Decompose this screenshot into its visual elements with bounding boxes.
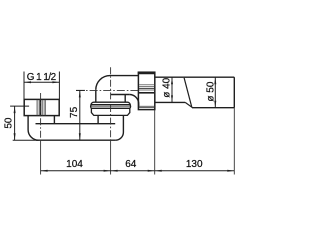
collar: bead inner line 1 [91,104,130,106]
svg-text:ø 50: ø 50 [205,81,216,101]
outlet pipe: right end face [233,77,235,108]
dimension: 50 [10,106,29,140]
elbow: hub bottom corner arc into nut [129,95,138,109]
outlet pipe: o40 bottom line [155,101,185,103]
centerline: outlet axis [76,89,138,91]
extension: left nut axis to dim line [40,140,42,174]
outlet pipe: cone diagonal [184,78,192,107]
wire: tailpipe right edge + inner bend arc [53,116,55,124]
nut G1 facet shading lines [37,100,45,115]
collar: upper bead [91,102,131,108]
dimension: o 40 [171,77,173,102]
riser: left edge with inner fillet [97,115,99,123]
wire: bottom pipe bottom line (with 50-dim extension at left) [13,139,36,141]
dimension: 75 [76,90,85,140]
collar: lower skirt with chamfered bottom corners [91,108,129,115]
centerline: left nut axis [40,93,42,140]
collar: bead inner line 2 [91,105,130,107]
nut U2 top thick edge [138,72,156,75]
centerlines [41,67,139,174]
outlet pipe: top line [155,76,235,78]
wire: tailpipe left edge + outer bend arc [28,116,38,141]
extension: riser axis to dim line [110,140,112,174]
nut U2: right union nut body [138,72,154,109]
svg-text:50: 50 [3,117,14,129]
elbow: left edge [95,90,97,102]
inlet tailpipe below nut G1 [28,116,54,141]
wire: bottom pipe top line [36,123,116,125]
elbow: outer arc [96,76,110,90]
svg-text:130: 130 [186,159,203,170]
outlet pipe: o50 bottom line [192,107,234,109]
elbow: top line to nut [110,75,138,77]
nut U2 facet shading lines [139,85,154,108]
elbow: hub right edge [124,95,126,103]
outlet pipe: bottom step to o50 [185,102,192,107]
nut G1: left union nut body [24,99,59,115]
svg-text:64: 64 [125,159,137,170]
svg-text:ø 40: ø 40 [162,77,173,97]
dimension: G 1 1/2 [24,72,59,100]
dimension: o 50 [214,77,216,108]
svg-text:75: 75 [69,106,80,118]
svg-text:104: 104 [66,159,83,170]
centerline: riser axis [110,67,112,140]
dimension chain 104 / 64 / 130 [41,108,235,175]
elbow: hub bottom line [111,94,130,96]
riser: right edge with outer bend arc [115,115,123,140]
svg-text:G 1 1/2: G 1 1/2 [27,72,56,83]
